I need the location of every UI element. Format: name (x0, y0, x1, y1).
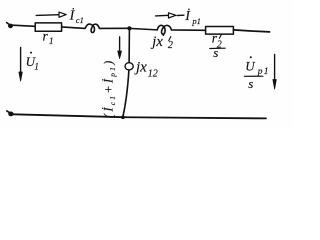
inductor coil x12 (loop on vertical branch) (125, 63, 133, 70)
current arrow Ic1 (36, 12, 66, 17)
label Ic1 (69, 7, 84, 25)
wire: vertical branch (top junction down) (128, 30, 130, 62)
node: left top terminal (7, 23, 13, 29)
node: left bottom terminal (7, 111, 14, 116)
resistor R2 (r2'/s) (206, 27, 234, 35)
svg-text:c1: c1 (76, 15, 84, 25)
svg-text:12: 12 (148, 69, 158, 80)
wire: junction to coil x2 (132, 29, 158, 30)
voltage arrow Up1/s (right) (273, 55, 276, 90)
label jx2' (150, 34, 173, 51)
label Ip1 (184, 8, 201, 26)
svg-text:s: s (248, 76, 253, 91)
svg-text:1: 1 (34, 62, 39, 72)
label jx12 (134, 59, 158, 79)
node A: top junction dot (127, 26, 131, 30)
label r1 (43, 29, 54, 46)
svg-text:İ: İ (184, 8, 191, 24)
label r2'/s (210, 31, 225, 60)
current arrow -Ip1 (156, 13, 184, 18)
svg-text:İ: İ (69, 7, 76, 23)
wire: R2 to right end of top rail (233, 30, 269, 32)
current arrow (Ic1+Ip1) down (118, 37, 122, 59)
svg-text:r: r (43, 29, 49, 44)
svg-text:1: 1 (49, 36, 54, 46)
svg-text:U: U (245, 58, 256, 73)
svg-text:jx: jx (134, 59, 147, 75)
svg-text:p1: p1 (191, 16, 201, 26)
label U1 (26, 52, 39, 72)
svg-text:2: 2 (168, 40, 173, 51)
wire: left terminal to R1 (13, 25, 35, 26)
inductor coil x2' (loop on top rail) (157, 25, 205, 34)
svg-text:(İc1+İp1): (İc1+İp1) (102, 59, 118, 119)
node: bottom junction dot (121, 116, 125, 120)
voltage arrow U1 (left) (19, 48, 22, 82)
svg-text:jx: jx (150, 34, 163, 50)
resistor R1 (35, 23, 61, 31)
inductor coil x1 (loop on top rail) (62, 24, 128, 32)
svg-text:s: s (213, 45, 218, 60)
label Up1/s (244, 56, 269, 91)
wire: bottom rail (13, 114, 266, 118)
